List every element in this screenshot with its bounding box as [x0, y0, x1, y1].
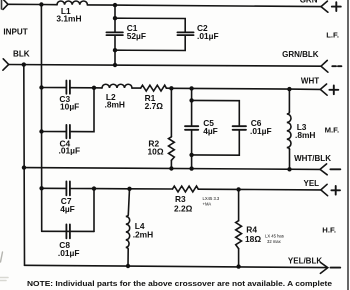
svg-text:NOTE: Individual parts for the: NOTE: Individual parts for the above cro… — [27, 279, 332, 288]
svg-text:INPUT: INPUT — [3, 27, 27, 36]
terminal WHT + (chevron) — [320, 84, 327, 95]
svg-text:.01µF: .01µF — [58, 248, 80, 258]
svg-text:.01µF: .01µF — [59, 146, 81, 156]
svg-text:YEL/BLK: YEL/BLK — [288, 257, 322, 266]
input terminal - (chevron) — [3, 59, 9, 70]
wire junction A to L1 — [41, 4, 57, 6]
wire C4 branch left — [42, 131, 67, 133]
capacitor C7 — [66, 181, 70, 195]
junction node H (L4 top) — [127, 187, 131, 191]
smudge bottom-left faint — [0, 278, 8, 281]
capacitor C8 — [66, 224, 70, 238]
capacitor C6 — [233, 126, 246, 130]
terminal GRN + (chevron) — [321, 1, 328, 12]
svg-text:3.1mH: 3.1mH — [56, 14, 81, 24]
wire left rail (+) — [40, 5, 42, 232]
wire node E to node F — [192, 87, 290, 90]
wire C5 leg upper — [191, 88, 193, 100]
capacitor C5 — [185, 126, 198, 130]
wire C3 to node C — [71, 87, 95, 89]
terminal YEL/BLK - (arrowhead) — [320, 262, 327, 273]
junction node D (R2 top) — [169, 86, 173, 90]
plus sign H.F. — [331, 186, 340, 195]
frame mark top-left — [1, 0, 3, 9]
minus sign M.F. — [330, 168, 340, 170]
wire node B to GRN terminal — [115, 5, 321, 7]
junction C1 leg on BLK bus — [113, 63, 117, 67]
plus sign M.F. — [329, 86, 338, 95]
wire C5 mid lower — [191, 131, 193, 155]
wire C5 leg lower — [191, 155, 193, 169]
wire C8 right leg — [93, 189, 95, 232]
frame border right — [347, 0, 349, 290]
svg-text:18Ω: 18Ω — [245, 234, 261, 244]
svg-text:R4: R4 — [246, 224, 257, 234]
junction C5 loop top — [189, 98, 193, 102]
resistor R1 — [141, 85, 167, 91]
wire R3 to node I — [198, 188, 238, 190]
svg-text:BLK: BLK — [13, 50, 30, 59]
inductor L1 — [57, 1, 87, 5]
junction node I (R4 top) — [236, 187, 240, 191]
junction C7 branch on rail — [39, 186, 43, 190]
svg-text:.01µF: .01µF — [197, 31, 219, 41]
svg-text:GRN: GRN — [300, 0, 318, 5]
svg-text:YEL: YEL — [304, 179, 320, 188]
wire C4 vertical from node C — [71, 88, 95, 132]
junction L3 bottom — [287, 167, 291, 171]
wire R4 upper leg — [238, 189, 240, 220]
svg-text:4µF: 4µF — [203, 126, 218, 136]
svg-text:2.7Ω: 2.7Ω — [145, 101, 164, 111]
wire R1 to node D — [166, 87, 171, 89]
svg-text:H.F.: H.F. — [322, 225, 336, 234]
resistor R4 — [236, 221, 242, 249]
minus sign H.F. — [331, 267, 341, 269]
svg-text:.01µF: .01µF — [250, 126, 272, 136]
input terminal + (chevron) — [3, 0, 8, 9]
inductor L4 — [126, 215, 130, 250]
wire node F to WHT terminal — [289, 88, 320, 90]
wire C6 lower — [192, 131, 240, 156]
terminal GRN/BLK - (chevron) — [321, 60, 328, 72]
wire C1 leg lower — [114, 36, 116, 65]
svg-text:32 max: 32 max — [267, 239, 282, 244]
capacitor C1 — [106, 32, 123, 35]
junction C5 loop bottom — [189, 153, 193, 157]
svg-text:LX45 3.3: LX45 3.3 — [203, 196, 220, 201]
wire C5C6 loop top — [192, 100, 240, 125]
junction node A — [39, 2, 43, 6]
svg-text:10Ω: 10Ω — [148, 147, 164, 157]
junction node G — [92, 186, 96, 190]
capacitor C2 — [177, 32, 193, 35]
junction R2 bottom — [169, 166, 173, 170]
junction C5 leg bottom — [189, 166, 193, 170]
wire node I to YEL terminal — [239, 188, 321, 191]
svg-text:.8mH: .8mH — [295, 130, 315, 140]
wire node C to L2 — [94, 87, 102, 89]
junction C4 branch on rail — [39, 129, 43, 133]
wire C7 to node G — [71, 188, 95, 190]
wire node D to node E — [171, 87, 191, 89]
svg-text:.8mH: .8mH — [105, 100, 125, 110]
svg-text:M.F.: M.F. — [325, 125, 340, 134]
svg-text:WHT: WHT — [301, 76, 319, 85]
junction node F (L3 top) — [287, 87, 291, 91]
wire R2 upper leg — [170, 88, 172, 137]
svg-text:2.2Ω: 2.2Ω — [174, 204, 193, 214]
minus sign L.F. — [332, 65, 341, 67]
wire L4 lower leg — [127, 249, 129, 266]
junction MF bus on left rail — [22, 165, 26, 169]
junction L4 bottom — [126, 264, 130, 268]
wire left rail (-) — [23, 65, 26, 266]
svg-text:.2mH: .2mH — [133, 230, 153, 240]
wire L3 upper leg — [288, 89, 290, 112]
wire L3 lower leg — [289, 149, 291, 169]
junction node C — [92, 86, 96, 90]
inductor L2 — [102, 84, 132, 88]
junction node E (C5 top) — [189, 86, 193, 90]
svg-text:GRN/BLK: GRN/BLK — [282, 50, 319, 59]
wire input+ to junction A — [8, 3, 41, 5]
capacitor C4 — [66, 125, 70, 138]
wire R2 lower leg — [170, 160, 172, 168]
svg-text:L.F.: L.F. — [326, 31, 339, 40]
junction BLK rail — [22, 62, 26, 66]
svg-text:10µF: 10µF — [60, 101, 79, 111]
wire BLK bus — [9, 65, 321, 67]
wire C5 mid upper — [191, 100, 193, 125]
wire C1 leg upper — [114, 5, 116, 31]
wire L2 to R1 — [132, 87, 141, 89]
junction C3 branch on rail — [39, 85, 43, 89]
junction C1 loop top — [113, 16, 117, 20]
wire C1C2 loop top — [115, 18, 185, 31]
junction node B — [113, 3, 117, 7]
svg-text:WHT/BLK: WHT/BLK — [294, 154, 331, 163]
svg-text:+MA: +MA — [203, 202, 212, 207]
resistor R3 — [173, 186, 199, 192]
wire MF return bus — [24, 168, 320, 170]
frame mark bottom-left faint — [1, 252, 3, 262]
svg-text:52µF: 52µF — [127, 31, 146, 41]
svg-text:4µF: 4µF — [60, 204, 75, 214]
inductor L3 — [287, 112, 291, 150]
wire C1C2 loop bottom — [115, 36, 185, 51]
wire C7 branch left — [42, 187, 66, 189]
terminal WHT/BLK - (chevron) — [320, 164, 327, 175]
svg-text:LX 45 has: LX 45 has — [265, 234, 284, 239]
wire C3 branch left — [42, 87, 67, 89]
wire C8 loop bottom — [42, 230, 94, 232]
plus sign L.F. — [332, 2, 341, 11]
svg-text:R3: R3 — [175, 194, 186, 204]
junction C1 loop bottom — [113, 48, 117, 52]
wire R4 lower leg — [238, 249, 240, 267]
terminal YEL + (chevron) — [321, 184, 328, 195]
wire node G to node H — [94, 188, 130, 190]
capacitor C3 — [66, 81, 70, 94]
resistor R2 — [169, 137, 175, 161]
wire L4 upper leg — [128, 189, 129, 215]
wire node H to R3 — [130, 188, 173, 190]
junction R4 bottom — [236, 264, 240, 268]
wire HF return bus — [25, 265, 328, 267]
wire L1 to node B — [87, 4, 115, 6]
